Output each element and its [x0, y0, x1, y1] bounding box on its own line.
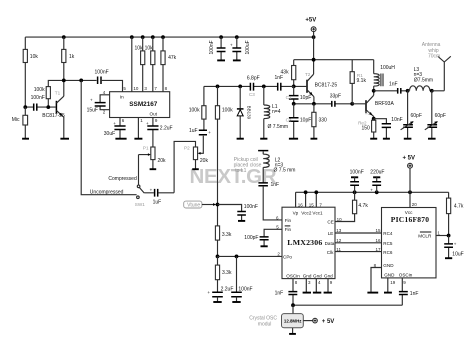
- svg-text:Ø 7.5 mm: Ø 7.5 mm: [274, 168, 296, 174]
- svg-text:LE: LE: [328, 231, 334, 236]
- node dot mic: [23, 105, 27, 109]
- svg-text:SSM2167: SSM2167: [129, 101, 158, 108]
- resistor 100k (T1 feedback): [34, 87, 51, 108]
- capacitor 2.2uF (loop filter): [207, 287, 233, 302]
- svg-text:60pF: 60pF: [435, 113, 446, 119]
- resistor R1 9.1k: [350, 60, 366, 104]
- transistor T1 BC817-25: [42, 91, 65, 139]
- svg-text:6.8pF: 6.8pF: [247, 75, 260, 81]
- wire MCLR: [418, 231, 448, 239]
- svg-text:15: 15: [309, 202, 315, 207]
- ground (Vtune 100nF): [238, 220, 245, 222]
- svg-text:+ 5V: + 5V: [322, 319, 335, 325]
- svg-text:20: 20: [412, 202, 418, 207]
- ground (T1 emitter): [60, 138, 69, 140]
- svg-text:C2: C2: [286, 118, 292, 123]
- svg-text:10k: 10k: [30, 54, 39, 60]
- ground (L1): [260, 138, 267, 140]
- svg-text:Gnd: Gnd: [324, 274, 333, 279]
- svg-text:10k: 10k: [145, 46, 154, 52]
- svg-text:Gnd: Gnd: [303, 274, 312, 279]
- svg-text:Out: Out: [150, 111, 158, 116]
- svg-text:10: 10: [133, 86, 139, 91]
- node dot T3 emitter: [372, 117, 376, 121]
- svg-text:T2: T2: [305, 72, 311, 77]
- svg-text:+: +: [370, 188, 373, 193]
- node junction dots on top rail: [62, 35, 66, 39]
- wire oscillator tank line: [204, 85, 294, 87]
- wire crystal clock line: [293, 304, 402, 306]
- capacitor C3 6.8pF: [247, 75, 260, 96]
- svg-text:+5V: +5V: [305, 17, 316, 23]
- svg-text:+: +: [113, 121, 116, 126]
- svg-text:Vcc: Vcc: [405, 210, 413, 215]
- svg-text:Data: Data: [325, 241, 335, 246]
- wire T1 collector node: [48, 80, 96, 86]
- svg-text:GND: GND: [383, 263, 394, 268]
- resistor 3.3k (lower): [215, 256, 232, 292]
- ground (C2): [289, 138, 298, 140]
- node dot Vtune: [216, 203, 220, 207]
- capacitor 1nF (tank): [275, 75, 284, 91]
- resistor Re2 150: [358, 119, 376, 139]
- svg-text:1nF: 1nF: [410, 291, 419, 297]
- svg-text:SW1: SW1: [135, 202, 145, 207]
- svg-text:47k: 47k: [168, 55, 177, 61]
- svg-text:BB139: BB139: [247, 106, 252, 120]
- capacitor 30uF (pin 6): [104, 118, 126, 139]
- capacitor 1uF (bias): [189, 128, 211, 135]
- resistor 10k (pin 7): [145, 37, 158, 92]
- IC U2 LMX2306: [282, 207, 335, 278]
- svg-text:Gnd: Gnd: [313, 274, 322, 279]
- resistor 4.7k (CE pullup): [353, 192, 369, 213]
- ground (P1): [150, 168, 157, 170]
- svg-text:C3: C3: [249, 92, 255, 97]
- ground (trimmer left): [404, 138, 412, 140]
- ground (LMX Gnd 9): [324, 292, 332, 294]
- +5V supply (oscillator section): [305, 17, 316, 74]
- ground (mic): [22, 138, 29, 140]
- svg-text:OSCin: OSCin: [399, 273, 413, 278]
- capacitor 2.2uF (pin 9): [146, 118, 173, 148]
- svg-text:R1: R1: [357, 73, 363, 78]
- node dots tank line: [216, 85, 220, 89]
- svg-text:2.2uF: 2.2uF: [160, 126, 173, 132]
- LMX top pin labels: [293, 202, 323, 215]
- svg-text:330: 330: [319, 117, 328, 123]
- svg-text:100k: 100k: [189, 108, 200, 114]
- svg-text:C1: C1: [286, 95, 292, 100]
- switch SW1: [135, 185, 145, 207]
- svg-text:Vtune: Vtune: [187, 202, 200, 208]
- transistor T3 BRF93A: [352, 91, 394, 119]
- resistor 100k (to Vtune): [215, 86, 233, 226]
- node dots logic rail: [304, 190, 308, 194]
- svg-text:4.7k: 4.7k: [454, 203, 464, 209]
- capacitor 100nF (logic rail): [350, 170, 364, 193]
- capacitor 1nF (PIC OSCin): [399, 278, 419, 305]
- trimmer capacitor 60pF (right): [425, 91, 446, 138]
- svg-text:Compressed: Compressed: [108, 176, 137, 182]
- ground (330): [311, 138, 318, 140]
- capacitor 100pF (Fin-bar): [244, 229, 282, 246]
- wire Clk-RC6: [327, 247, 393, 255]
- capacitor 100nF (top rail decoupling): [209, 37, 226, 60]
- ground (PIC GND pin 19): [384, 278, 392, 293]
- wire LMX ground pins: [306, 279, 328, 293]
- svg-text:LMX2306: LMX2306: [287, 238, 322, 247]
- ground (Re2): [370, 138, 377, 140]
- svg-text:100nF: 100nF: [244, 204, 258, 210]
- wire oscillator supply rail: [294, 59, 374, 61]
- PIC bottom pin labels: [384, 273, 413, 285]
- svg-text:Mic: Mic: [12, 117, 20, 123]
- +5V supply (crystal): [303, 318, 334, 325]
- capacitor 1nF (pickup coupling): [258, 182, 282, 220]
- svg-text:+: +: [230, 42, 233, 47]
- LMX left pin labels: [276, 215, 292, 259]
- svg-text:16: 16: [376, 238, 382, 243]
- svg-text:1nF: 1nF: [389, 81, 398, 87]
- svg-text:BC817-25: BC817-25: [42, 113, 65, 119]
- ground (crystal): [289, 333, 296, 335]
- svg-text:In: In: [120, 94, 124, 99]
- node dot L3 left: [406, 89, 410, 93]
- wire uncompressed line: [81, 80, 136, 194]
- ground (30uF): [115, 138, 126, 140]
- svg-text:10: 10: [337, 217, 343, 222]
- ground (P2): [192, 168, 199, 170]
- svg-text:Uncompressed: Uncompressed: [90, 190, 124, 196]
- node dot uncompressed tap: [79, 79, 83, 83]
- capacitor 33pF: [330, 94, 341, 107]
- svg-text:100pF: 100pF: [244, 235, 258, 241]
- svg-text:10uF: 10uF: [452, 252, 463, 258]
- svg-text:1uF: 1uF: [153, 200, 162, 206]
- inductor 100uH (RF choke): [374, 60, 396, 91]
- svg-text:19: 19: [390, 280, 396, 285]
- svg-text:Vcc1: Vcc1: [312, 210, 323, 215]
- ground (10uF): [445, 257, 452, 259]
- transistor T2 BC817-25: [294, 72, 338, 104]
- svg-text:17: 17: [376, 247, 382, 252]
- IC U1 SSM2167: [110, 92, 170, 118]
- potentiometer P1 20k: [139, 146, 167, 186]
- svg-text:modul: modul: [258, 322, 272, 328]
- node Vtune: [184, 201, 217, 208]
- resistor 1k (T1 collector): [62, 37, 75, 96]
- svg-text:100nF: 100nF: [31, 95, 45, 101]
- svg-text:1nF: 1nF: [275, 75, 284, 81]
- svg-text:CE: CE: [327, 220, 333, 225]
- svg-text:150: 150: [362, 125, 371, 131]
- svg-text:100k: 100k: [222, 108, 233, 114]
- resistor 3.3k (upper): [215, 226, 231, 257]
- svg-text:3.3k: 3.3k: [222, 232, 232, 238]
- svg-text:+: +: [208, 130, 211, 135]
- capacitor 100uF (top rail decoupling): [230, 37, 251, 60]
- wire LE-RC4: [328, 228, 393, 236]
- microphone Mic: [12, 107, 28, 138]
- inductor L3 n=3: [408, 67, 433, 91]
- svg-text:11: 11: [336, 247, 341, 252]
- svg-text:220uF: 220uF: [370, 170, 384, 176]
- ground (PIC GND pin 8): [367, 263, 394, 293]
- capacitor 1nF (LMX OSCin): [275, 279, 298, 306]
- capacitor 100nF (loop filter): [231, 256, 252, 301]
- svg-text:1nF: 1nF: [271, 182, 280, 188]
- wire T2 emitter line: [294, 103, 353, 105]
- node dot L3 right: [430, 89, 434, 93]
- svg-text:9.1k: 9.1k: [357, 78, 367, 84]
- resistor 4.7k (MCLR pullup): [447, 192, 464, 235]
- node dot T3 collector: [372, 89, 376, 93]
- svg-text:MCLR: MCLR: [418, 234, 432, 239]
- svg-text:PIC16F870: PIC16F870: [391, 215, 430, 224]
- inductor L2 pickup coil n=3: [258, 151, 295, 183]
- svg-text:OSCin: OSCin: [286, 274, 300, 279]
- svg-text:n=4: n=4: [272, 109, 281, 115]
- node dot T1 base: [46, 105, 50, 109]
- svg-text:Fin: Fin: [285, 227, 292, 232]
- svg-text:15uF: 15uF: [87, 108, 98, 114]
- svg-text:BC817-25: BC817-25: [315, 83, 338, 89]
- capacitor 1uF (switch coupling): [144, 187, 174, 205]
- node dot +5V/rail2: [312, 58, 316, 62]
- svg-text:Vp: Vp: [293, 210, 299, 215]
- svg-text:10pF: 10pF: [300, 95, 311, 101]
- svg-text:100nF: 100nF: [209, 40, 215, 54]
- LMX right CE pin: [327, 214, 354, 225]
- svg-text:P1: P1: [143, 146, 149, 151]
- capacitor 220uF (logic rail): [370, 170, 384, 193]
- svg-text:20k: 20k: [200, 158, 209, 164]
- +5V supply (logic): [403, 155, 416, 207]
- ground (loop filter 100nF): [232, 301, 240, 303]
- svg-text:16: 16: [298, 202, 304, 207]
- svg-text:1uF: 1uF: [189, 128, 198, 134]
- svg-text:P2: P2: [184, 146, 190, 151]
- svg-text:BRF93A: BRF93A: [375, 101, 395, 107]
- svg-text:30uF: 30uF: [104, 131, 115, 137]
- node dot loop filter: [235, 255, 239, 259]
- svg-text:RC6: RC6: [383, 250, 393, 255]
- svg-text:CPo: CPo: [283, 254, 292, 259]
- capacitor 100nF (SSM input coupling): [95, 69, 123, 91]
- svg-text:Ø 7.5mm: Ø 7.5mm: [268, 124, 289, 130]
- node dot MCLR: [447, 234, 451, 238]
- svg-text:+: +: [454, 242, 457, 247]
- svg-text:33pF: 33pF: [330, 94, 341, 100]
- node dot crystal: [291, 303, 295, 307]
- ground (BB139): [237, 138, 244, 140]
- svg-text:RC4: RC4: [383, 231, 393, 236]
- svg-text:T3: T3: [365, 110, 371, 115]
- svg-text:+: +: [90, 97, 93, 102]
- potentiometer P2 20k: [174, 136, 208, 193]
- wire logic supply rail: [296, 191, 449, 193]
- node dot CPo: [216, 255, 220, 259]
- svg-text:10k: 10k: [135, 46, 144, 52]
- ground (pin 1): [134, 118, 143, 139]
- capacitor C2 10pF: [286, 104, 312, 138]
- capacitor 10uF (MCLR): [444, 236, 464, 258]
- svg-text:3.3k: 3.3k: [222, 270, 232, 276]
- LMX bottom pin labels: [286, 274, 333, 286]
- resistor 47k (pin 8): [161, 37, 177, 92]
- varicap diode BB139: [237, 86, 252, 138]
- inductor L1 n=4: [264, 86, 288, 138]
- svg-text:100k: 100k: [34, 87, 45, 93]
- resistor 100k (bias upper): [189, 86, 206, 130]
- svg-text:+: +: [207, 290, 210, 295]
- ground (100pF): [261, 245, 268, 247]
- svg-text:+: +: [150, 187, 153, 192]
- capacitor C1 10pF: [286, 86, 312, 103]
- IC U3 PIC16F870: [382, 202, 437, 278]
- svg-text:10nF: 10nF: [391, 117, 402, 123]
- ground (trimmer right): [428, 138, 436, 140]
- trimmer capacitor 60pF (left): [401, 91, 422, 138]
- wire Data-RC5: [325, 238, 393, 246]
- capacitor 100nF (mic coupling): [25, 95, 55, 111]
- capacitor 10nF (emitter bypass): [374, 117, 403, 138]
- svg-text:100nF: 100nF: [350, 170, 364, 176]
- svg-text:60pF: 60pF: [411, 113, 422, 119]
- svg-text:+: +: [146, 121, 149, 126]
- node dots emitter line: [292, 102, 296, 106]
- ground (2.2uF): [213, 301, 221, 303]
- resistor 10k (mic bias): [23, 37, 38, 107]
- svg-text:12: 12: [336, 238, 342, 243]
- note pickup coil: [234, 157, 262, 174]
- antenna whip 70cm: [422, 42, 451, 91]
- wire LMX supply pins: [296, 192, 317, 207]
- svg-text:1k: 1k: [69, 54, 75, 60]
- svg-text:+ 5V: + 5V: [403, 155, 416, 161]
- svg-text:Clk: Clk: [327, 250, 334, 255]
- ground (LMX Gnd 4): [313, 292, 321, 294]
- capacitor 100nF (Vtune): [218, 204, 258, 221]
- svg-text:100uF: 100uF: [245, 40, 251, 54]
- wire RF output line: [374, 90, 408, 92]
- svg-text:100nF: 100nF: [95, 69, 109, 75]
- node dot 1k/collector: [62, 79, 66, 83]
- svg-text:100uH: 100uH: [380, 65, 395, 71]
- wire CPo line: [218, 255, 283, 257]
- svg-text:Ø7.5mm: Ø7.5mm: [414, 78, 433, 84]
- svg-text:12.8MHz: 12.8MHz: [284, 319, 302, 324]
- svg-text:1nF: 1nF: [275, 291, 284, 297]
- svg-text:20k: 20k: [158, 158, 167, 164]
- node dot T2 base: [292, 85, 296, 89]
- capacitor 15uF (pins 4-2): [87, 90, 110, 114]
- resistor 330: [312, 104, 327, 138]
- svg-text:Fin: Fin: [285, 218, 292, 223]
- svg-text:70cm: 70cm: [428, 54, 440, 60]
- svg-text:GND: GND: [384, 273, 395, 278]
- svg-text:13: 13: [336, 228, 342, 233]
- resistor 43k: [281, 60, 296, 87]
- resistor 10k (pin 3): [135, 37, 148, 92]
- svg-text:100nF: 100nF: [238, 287, 252, 293]
- svg-text:Vcc2: Vcc2: [301, 210, 312, 215]
- svg-text:10pF: 10pF: [300, 118, 311, 124]
- svg-text:to L1: to L1: [235, 168, 246, 174]
- ground (10nF): [383, 138, 390, 140]
- capacitor 1nF (output coupling): [389, 81, 401, 93]
- svg-text:15: 15: [376, 228, 382, 233]
- pin 10 wire: [132, 37, 139, 92]
- svg-text:4.7k: 4.7k: [358, 203, 368, 209]
- ground (LMX Gnd 3): [303, 292, 311, 294]
- crystal OSC module 12.8MHz: [249, 305, 303, 333]
- wire top supply rail: [25, 36, 313, 38]
- svg-text:T1: T1: [55, 91, 61, 96]
- svg-text:RC5: RC5: [383, 241, 393, 246]
